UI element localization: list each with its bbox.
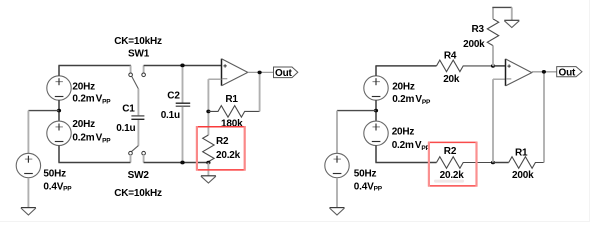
wire bottom rail right	[144, 162, 209, 164]
svg-text:200k: 200k	[512, 170, 534, 181]
wire V2 bottom lead	[58, 146, 60, 163]
wire minus input horizontal right	[493, 78, 506, 80]
svg-text:0.4VPP: 0.4VPP	[354, 182, 383, 193]
switch SW1	[129, 73, 146, 89]
source V2 20Hz 0.2mVpp	[47, 121, 71, 145]
wire top rail to op-amp	[144, 65, 222, 67]
wire junction to 50Hz vertical	[27, 111, 29, 154]
wire V3 to ground	[27, 178, 29, 208]
wire V4 top lead	[375, 66, 377, 76]
svg-text:R1: R1	[225, 94, 238, 105]
wire C1 bottom	[137, 120, 139, 146]
source V6 50Hz 0.4Vpp	[325, 153, 349, 177]
wire SW1 right stub	[143, 66, 145, 73]
svg-text:20Hz: 20Hz	[72, 81, 95, 92]
highlight box R2	[196, 126, 246, 171]
resistor R4 (zigzag)	[437, 60, 494, 72]
wire R3 top to corner	[492, 7, 494, 19]
svg-text:R1: R1	[515, 147, 528, 158]
wire junction to 50Hz horizontal	[337, 110, 376, 112]
highlight box R2 right	[428, 142, 477, 187]
wire ground stub top right	[511, 7, 513, 20]
svg-text:SW1: SW1	[128, 48, 150, 59]
wire SW2 right stub	[143, 155, 145, 163]
node R1 left	[206, 110, 210, 114]
ground (V3)	[21, 208, 36, 215]
wire SW1 left stub	[130, 66, 132, 73]
svg-text:20Hz: 20Hz	[72, 119, 95, 130]
svg-text:20.2k: 20.2k	[440, 170, 465, 181]
node C2 top	[180, 64, 184, 68]
ghost text smudge	[434, 180, 464, 183]
wire R1 right to output vertical	[543, 72, 545, 163]
node output right	[542, 70, 546, 74]
node R2 bottom	[206, 161, 210, 165]
resistor R2 (vertical zigzag)	[203, 135, 214, 162]
svg-text:0.2mVPP: 0.2mVPP	[72, 133, 111, 145]
wire op-amp minus input	[208, 78, 221, 80]
wire minus node vertical	[207, 79, 209, 135]
svg-text:CK=10kHz: CK=10kHz	[114, 188, 162, 199]
wire SW2 left stub	[130, 155, 132, 163]
wire R2 to ground	[207, 163, 209, 176]
node junction V4-V5	[374, 109, 378, 113]
node minus input right	[491, 161, 495, 165]
wire R3 bottom lead	[492, 46, 494, 66]
wire node to op-amp	[493, 65, 506, 67]
node junction V1-V2	[57, 109, 61, 113]
wire node to R1 right	[493, 162, 509, 164]
svg-text:180k: 180k	[221, 119, 243, 130]
svg-text:50Hz: 50Hz	[43, 168, 66, 179]
out tag (right)	[557, 67, 582, 79]
wire bottom rail to R2	[375, 162, 436, 164]
op-amp U1	[222, 59, 248, 86]
svg-text:20k: 20k	[443, 74, 460, 85]
svg-text:0.2mVPP: 0.2mVPP	[392, 140, 431, 152]
resistor R1 right (zigzag)	[509, 157, 544, 169]
svg-text:200k: 200k	[463, 39, 485, 50]
switch SW2	[129, 151, 146, 155]
source V4 20Hz 0.2mVpp	[364, 76, 388, 100]
svg-text:R2: R2	[216, 136, 229, 147]
svg-text:50Hz: 50Hz	[354, 168, 377, 179]
svg-text:R3: R3	[472, 24, 485, 35]
wire V6 to ground	[336, 178, 338, 208]
capacitor C1	[131, 116, 144, 119]
node output	[258, 71, 262, 75]
wire top rail to R4	[375, 65, 436, 67]
svg-text:0.4VPP: 0.4VPP	[43, 182, 72, 193]
wire junction to 50Hz horizontal	[28, 110, 59, 112]
wire junction to 50Hz vertical	[336, 111, 338, 154]
source V3 50Hz 0.4Vpp	[16, 153, 40, 177]
op-amp U2	[506, 59, 532, 86]
source V5 20Hz 0.2mVpp	[364, 121, 388, 145]
source V1 20Hz 0.2mVpp	[47, 76, 71, 100]
wire V1 bottom lead	[58, 100, 60, 121]
svg-text:Out: Out	[559, 68, 576, 79]
wire C2 bottom	[182, 107, 184, 163]
svg-text:C1: C1	[122, 103, 135, 114]
resistor R3 (vertical zigzag)	[487, 19, 498, 46]
svg-text:0.2mVPP: 0.2mVPP	[72, 93, 111, 105]
capacitor C2	[176, 103, 191, 106]
svg-text:0.2mVPP: 0.2mVPP	[392, 94, 431, 106]
svg-text:SW2: SW2	[128, 170, 150, 181]
svg-text:0.1u: 0.1u	[161, 110, 180, 121]
wire V4 bottom lead	[375, 100, 377, 121]
svg-text:20.2k: 20.2k	[216, 150, 241, 161]
node C2 bottom	[180, 161, 184, 165]
ground (V6)	[330, 208, 345, 215]
ground (R3)	[504, 20, 519, 27]
wire minus node vertical right	[492, 79, 494, 162]
svg-text:R2: R2	[444, 146, 457, 157]
wire R1 right vertical	[259, 72, 261, 111]
svg-text:R4: R4	[444, 50, 457, 61]
svg-text:0.1u: 0.1u	[116, 123, 135, 134]
resistor R2 right (zigzag)	[437, 157, 494, 169]
wire V5 bottom lead	[375, 146, 377, 163]
wire V1 top lead	[58, 66, 60, 76]
svg-text:Out: Out	[275, 68, 292, 79]
node plus input	[491, 64, 495, 68]
svg-text:CK=10kHz: CK=10kHz	[114, 36, 162, 47]
wire op-amp output right	[532, 71, 557, 73]
svg-text:20Hz: 20Hz	[392, 81, 415, 92]
wire bottom rail left	[58, 162, 130, 164]
out tag (left)	[274, 67, 298, 79]
wire top rail left	[58, 65, 131, 67]
ground (R2)	[201, 176, 216, 183]
wire C2 top	[182, 66, 184, 103]
wire op-amp output	[248, 71, 274, 73]
svg-text:C2: C2	[167, 91, 180, 102]
svg-text:20Hz: 20Hz	[392, 127, 415, 138]
wire R3 ground horizontal	[492, 6, 511, 8]
lever SW2	[132, 146, 139, 152]
wire lever to C1	[137, 89, 139, 116]
resistor R1 (zigzag)	[208, 106, 259, 118]
